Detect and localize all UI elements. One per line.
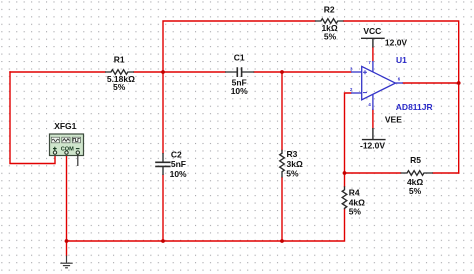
wire VCC to op-amp pin7 <box>372 48 374 62</box>
node junction (282,241) <box>280 239 284 243</box>
- label <box>76 148 80 150</box>
resistor R3 <box>280 150 285 178</box>
svg-text:VEE: VEE <box>385 115 402 125</box>
wire feedback from - input down <box>345 93 352 173</box>
wire vertical x163 top branch <box>163 21 315 72</box>
wire R3 lower <box>281 178 283 242</box>
wire ground drop <box>66 241 68 256</box>
waveform cell sine <box>51 137 59 143</box>
svg-text:10%: 10% <box>170 169 187 179</box>
VCC power symbol <box>361 38 385 47</box>
svg-text:5%: 5% <box>349 207 362 217</box>
pin circle + <box>53 151 56 154</box>
svg-text:5%: 5% <box>324 31 337 41</box>
wire XFG1 COM to ground bus <box>66 154 68 241</box>
node junction feedback (344.5,173) <box>343 171 347 175</box>
wire op-amp output <box>403 82 459 84</box>
wire C2 upper <box>162 72 164 153</box>
+ label <box>53 147 57 151</box>
svg-text:R3: R3 <box>287 149 298 159</box>
wire R2 right to right rail <box>344 21 459 173</box>
junction node dots <box>65 70 461 243</box>
svg-text:-12.0V: -12.0V <box>360 140 385 150</box>
svg-text:C2: C2 <box>171 150 182 160</box>
wire R3 upper <box>281 72 283 150</box>
op-amp +/- marks <box>363 70 367 92</box>
svg-text:VCC: VCC <box>363 26 381 36</box>
svg-text:R5: R5 <box>410 155 421 165</box>
node junction (163,241) <box>161 239 165 243</box>
svg-text:U1: U1 <box>396 55 407 65</box>
node junction (282,72) <box>280 70 284 74</box>
svg-text:5%: 5% <box>409 186 422 196</box>
pin circle COM <box>65 151 68 154</box>
resistor R4 <box>342 186 347 209</box>
wire R4 bottom to ground bus <box>67 209 345 241</box>
resistor R1 <box>105 70 134 75</box>
ground <box>60 256 72 268</box>
svg-text:R2: R2 <box>324 4 335 14</box>
svg-text:5%: 5% <box>286 168 299 178</box>
svg-text:R1: R1 <box>114 55 125 65</box>
node junction (163,72) <box>161 70 165 74</box>
VEE power symbol <box>362 128 386 140</box>
svg-text:AD811JR: AD811JR <box>396 102 433 112</box>
resistor R5 <box>401 171 434 176</box>
op-amp U1 <box>351 61 403 110</box>
unconnected - pin stub <box>77 154 79 166</box>
wire C2 lower <box>162 175 164 241</box>
resistor R2 <box>315 19 344 24</box>
wire C1 to op-amp + input <box>254 71 351 73</box>
wire VEE to op-amp pin4 <box>372 110 374 129</box>
svg-text:3kΩ: 3kΩ <box>287 159 303 169</box>
node junction ground bus (66.5,241) <box>65 239 69 243</box>
svg-text:R4: R4 <box>349 188 360 198</box>
wire main node A: R1 left segment <box>10 71 105 73</box>
node junction output (458.7,83) <box>457 81 461 85</box>
pin circle - <box>76 151 79 154</box>
wire R4 top <box>344 173 346 186</box>
capacitor C2 <box>155 153 170 175</box>
svg-text:XFG1: XFG1 <box>54 121 76 131</box>
svg-text:10%: 10% <box>231 86 248 96</box>
wire R1 to C1 <box>134 71 225 73</box>
wire left loop: R1 left to XFG1 + pin <box>10 72 55 164</box>
svg-text:C1: C1 <box>234 53 245 63</box>
waveform cell square <box>72 137 80 143</box>
svg-text:5nF: 5nF <box>171 159 186 169</box>
svg-text:12.0V: 12.0V <box>385 38 408 48</box>
wire R5 left to node B <box>345 172 401 174</box>
waveform cell triangle <box>62 137 70 143</box>
function generator XFG1 <box>50 134 84 166</box>
capacitor C1 <box>225 67 254 77</box>
svg-text:5%: 5% <box>113 82 126 92</box>
wire R5 right lead to rail <box>433 172 459 174</box>
